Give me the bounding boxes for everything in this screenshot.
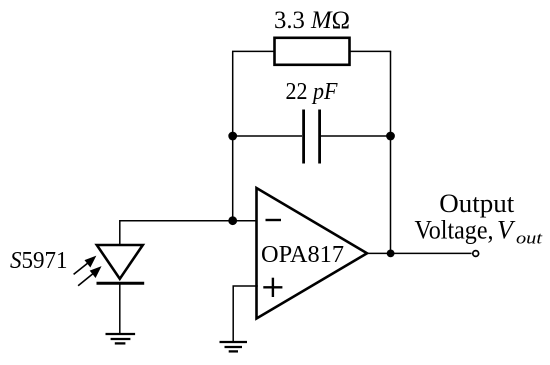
svg-text:3.3 MΩ: 3.3 MΩ [274,7,350,34]
wire: non-inverting input to ground [233,286,258,342]
svg-text:22 pF: 22 pF [286,79,338,105]
junction dot right of capacitor [386,132,395,141]
wire: top horizontal right segment from resistor [349,50,391,52]
ground under photodiode [106,334,136,343]
capacitor C (22 pF) plate left [302,110,305,164]
wire: photodiode anode up and right to inverting input [120,221,258,245]
light arrow lower [78,268,100,286]
junction dot left of capacitor [228,132,237,141]
svg-text:OPA817: OPA817 [261,241,344,268]
op-amp plus sign [263,278,282,297]
photodiode cathode bar [97,282,145,285]
wire: left feedback vertical (node A to resistor/cap) [232,51,234,221]
svg-text:out: out [516,229,544,248]
op-amp minus sign [266,219,282,221]
wire: capacitor left lead [233,135,302,137]
junction dot at output node [387,250,395,258]
wire: top horizontal left segment to resistor [232,50,275,52]
ground under non-inverting input [220,342,248,351]
output open terminal [473,251,479,257]
wire: output from op-amp apex [367,252,472,254]
resistor R (3.3 MOhm) [275,38,350,65]
svg-text:S5971: S5971 [10,248,68,274]
wire: capacitor right lead [321,135,391,137]
op-amp U1 OPA817 triangle [257,188,368,319]
wire: right feedback vertical [390,51,392,253]
junction dot at inverting input node [228,216,237,225]
svg-text:Output: Output [439,189,515,218]
wire: photodiode cathode to ground [119,283,121,334]
capacitor C plate right [318,110,321,164]
photodiode D1 triangle [97,245,143,279]
svg-text:Voltage,: Voltage, [415,216,494,245]
light arrow upper [74,257,95,274]
